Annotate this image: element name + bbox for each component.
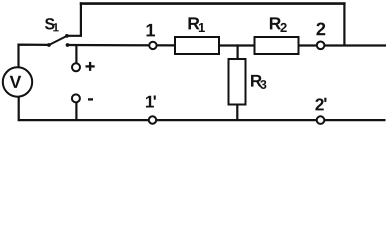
label R1: [188, 17, 204, 32]
node 2: [317, 42, 325, 50]
node 1: [149, 42, 156, 49]
switch S1: [47, 34, 69, 47]
label V of source: [10, 76, 22, 88]
wire + terminal drop: [75, 45, 77, 64]
wire - terminal drop: [75, 102, 77, 121]
voltage source V circle: [3, 67, 32, 96]
label node 2: [316, 22, 325, 35]
resistor R3: [229, 59, 246, 105]
wire right riser (top rail down to output rail): [343, 2, 345, 46]
label - sign of terminal: [88, 98, 93, 100]
label R3: [251, 75, 266, 89]
wire output rail (R2 through node 2 to right edge): [299, 44, 387, 46]
resistor R2: [255, 37, 299, 54]
wire R3 junction riser: [237, 44, 239, 59]
label node 1: [147, 24, 155, 37]
wire R1 to R2 segment: [219, 44, 255, 46]
label node 2': [315, 98, 326, 111]
resistor R1: [175, 37, 219, 54]
node 2': [317, 116, 325, 124]
wire R3 to bottom rail: [236, 104, 238, 121]
wire top rail: [80, 2, 346, 5]
label node 1': [146, 96, 156, 108]
wire bottom rail: [19, 119, 386, 121]
wire switch to node 1 to R1: [67, 44, 176, 47]
label R2: [270, 17, 287, 32]
label + sign of terminal: [86, 62, 95, 71]
label S1 (switch): [45, 18, 59, 31]
wire V source bottom lead: [18, 97, 20, 122]
node 1': [149, 116, 156, 123]
terminal - (open circle): [72, 94, 80, 102]
wire V source top lead: [19, 45, 50, 67]
terminal + (open circle): [72, 63, 80, 71]
wire switch blade feed and left riser to top rail: [67, 2, 81, 36]
